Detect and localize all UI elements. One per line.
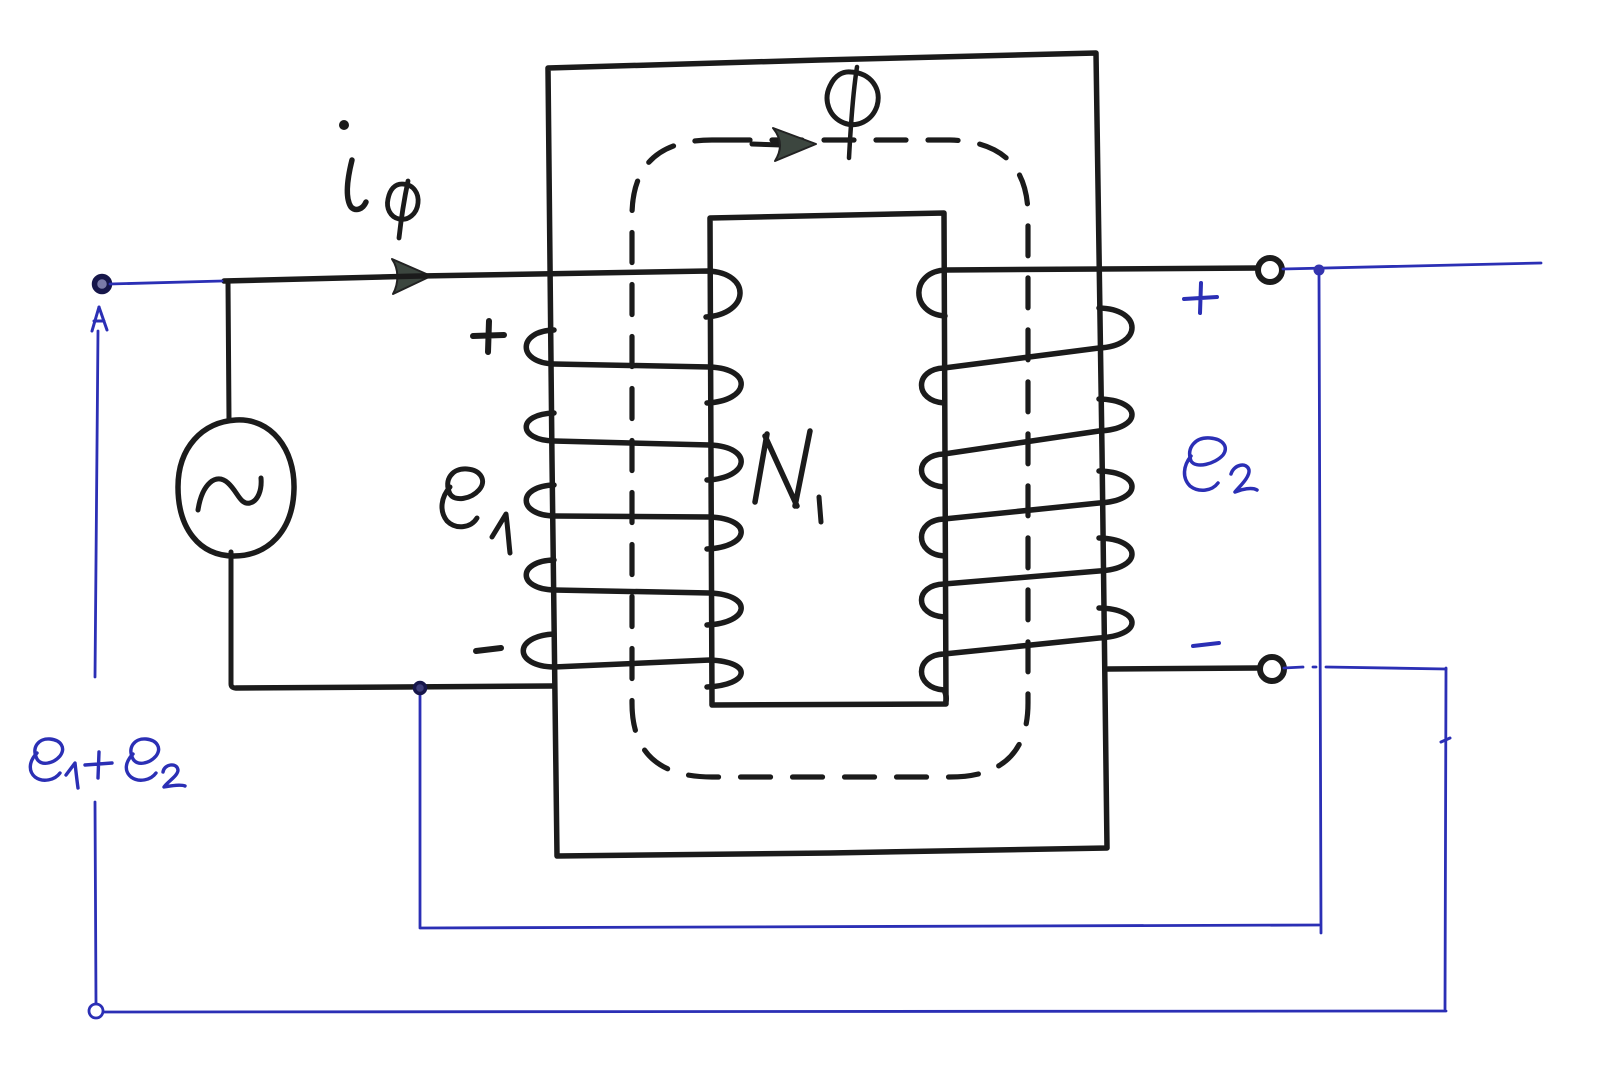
secondary turn 4	[922, 471, 1133, 556]
polarity + (primary)	[473, 321, 504, 352]
ac voltage source V1	[178, 420, 294, 556]
wire: source top riser	[228, 282, 229, 420]
primary turn 4	[526, 485, 741, 549]
node: left input terminal (blue)	[95, 277, 110, 292]
ac source sine symbol	[198, 478, 261, 510]
node: secondary bottom terminal	[1260, 657, 1284, 681]
transformer core outer outline	[548, 53, 1107, 856]
secondary turn 6	[922, 608, 1133, 701]
wire: blue right outer vertical	[1445, 668, 1446, 1009]
label N1 (turns)	[755, 431, 821, 522]
label e2 (secondary voltage)	[1184, 438, 1257, 492]
primary turn 6	[523, 634, 741, 687]
wire: e1+e2 measurement line lower segment	[95, 802, 96, 1004]
current direction arrow on top wire	[392, 259, 431, 294]
secondary turn 3	[922, 399, 1133, 487]
label i_phi (exciting current)	[339, 120, 418, 238]
polarity + (secondary)	[1184, 283, 1217, 313]
core window (inner rectangle)	[710, 213, 946, 705]
node: secondary top terminal	[1258, 258, 1282, 282]
wire: blue middle horizontal	[421, 925, 1319, 928]
secondary winding L2 (right coil)	[919, 268, 1260, 701]
arrowhead of e1+e2 measurement line	[92, 307, 107, 331]
wire: blue bottom horizontal	[104, 1011, 1446, 1012]
polarity - (primary)	[476, 648, 501, 651]
node: junction dot top right	[1314, 265, 1325, 276]
primary turn 5	[526, 560, 741, 625]
polarity - (secondary)	[1193, 643, 1219, 646]
wire: secondary bottom lead	[1108, 668, 1258, 669]
wire: blue stub from left terminal	[110, 281, 222, 284]
wire: blue from junction down	[419, 692, 422, 928]
wire: e1+e2 measurement line upper segment	[95, 331, 98, 677]
wire: blue dash-dot from secondary bottom terminal	[1284, 667, 1446, 669]
secondary turn 2	[922, 308, 1133, 403]
wire: top lead + primary turn 1	[224, 271, 740, 317]
wire: bottom left horizontal	[236, 686, 553, 688]
node: junction dot on bottom-left wire	[415, 683, 426, 694]
wire: blue top right	[1283, 263, 1541, 269]
flux path (dashed loop)	[632, 140, 1028, 777]
label phi (flux)	[827, 67, 878, 158]
secondary turn 5	[922, 538, 1133, 617]
tick mark on blue right vertical	[1441, 738, 1450, 742]
primary turn 3	[526, 413, 741, 480]
node: bottom-left terminal (blue)	[89, 1004, 103, 1018]
wire: blue middle vertical	[1319, 274, 1321, 933]
flux direction arrow	[752, 128, 816, 161]
primary winding L1 (left coil)	[224, 271, 741, 687]
wire: source bottom riser	[231, 552, 236, 688]
primary turn 2	[526, 330, 741, 403]
wire: secondary top lead + turn 1	[919, 268, 1260, 316]
label e1+e2	[30, 739, 185, 788]
label e1 (primary voltage)	[442, 469, 510, 553]
